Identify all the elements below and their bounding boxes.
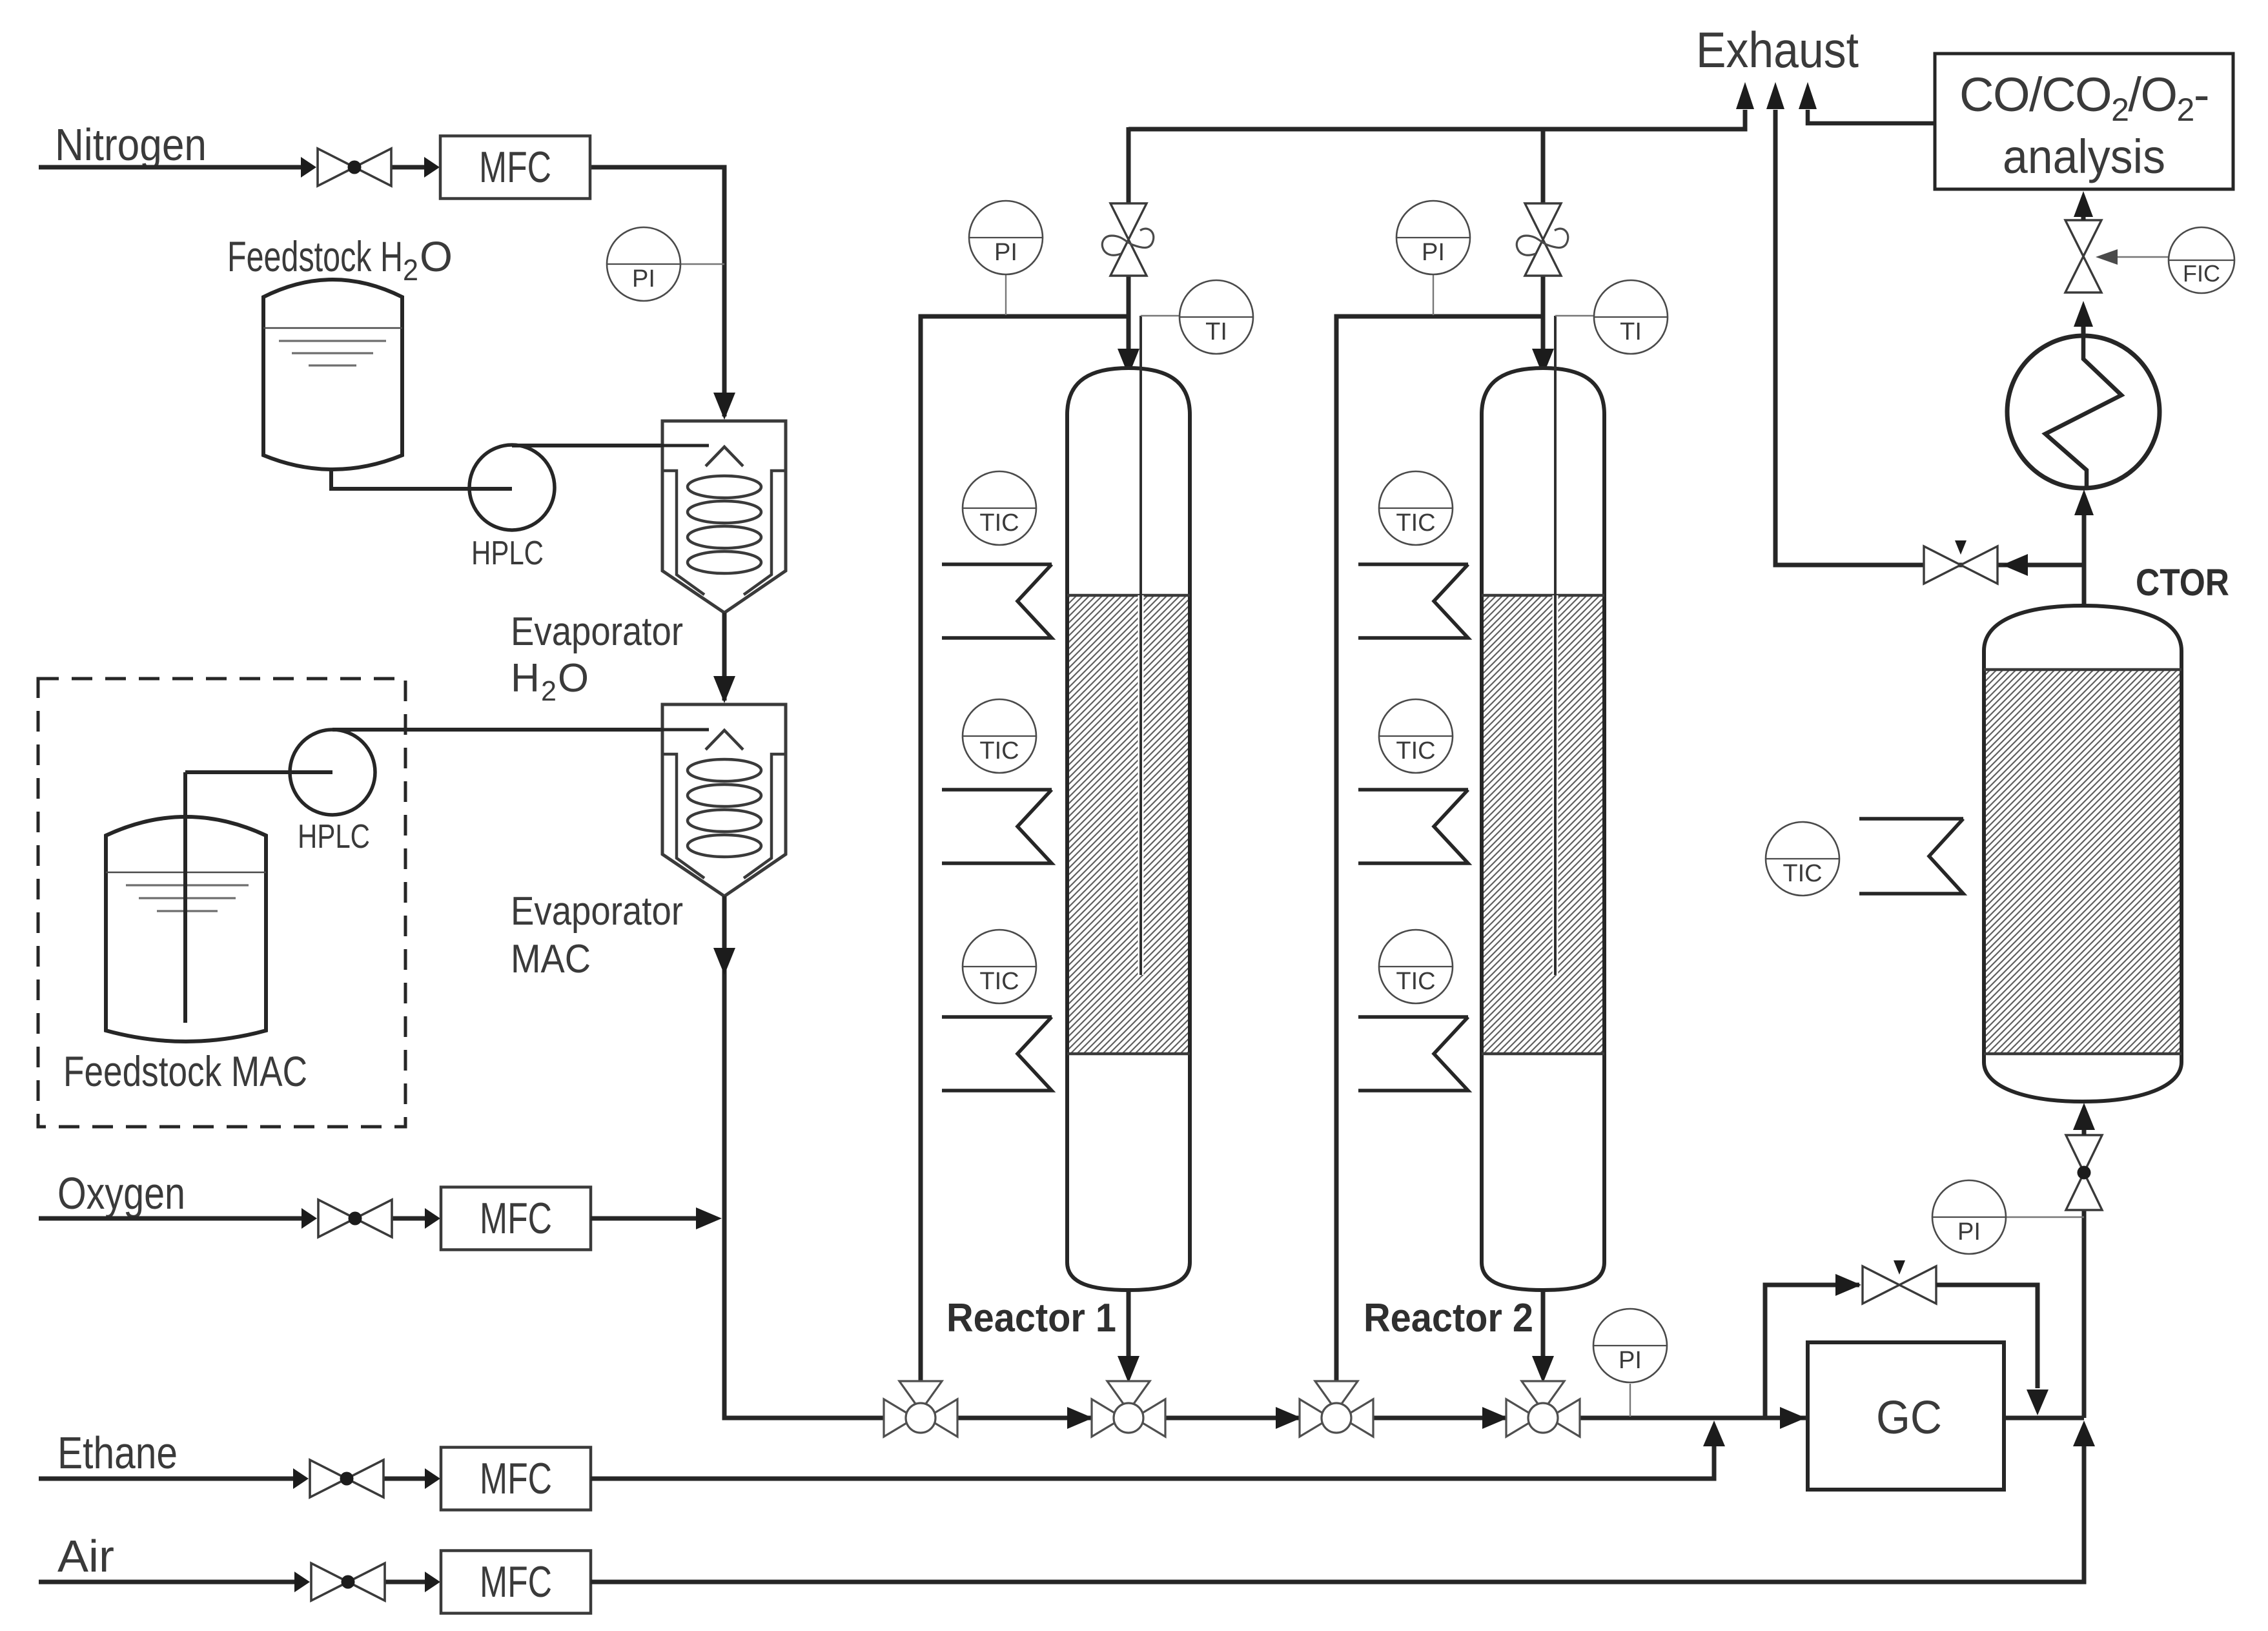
wire reactor 1 TI tap bbox=[1141, 315, 1180, 316]
svg-text:CO/CO2/O2-: CO/CO2/O2- bbox=[1959, 68, 2209, 128]
arrow reactor 2 outlet down bbox=[1532, 1356, 1554, 1383]
arrow reactor 1 outlet down bbox=[1118, 1356, 1139, 1383]
valve air shutoff bbox=[311, 1563, 385, 1601]
heater reactor 1 zone 2 bbox=[942, 790, 1052, 863]
svg-text:TI: TI bbox=[1205, 318, 1227, 345]
arrow analysis exhaust up bbox=[1799, 82, 1817, 109]
wire valve to CTOR bottom bbox=[2082, 1123, 2087, 1135]
svg-text:MFC: MFC bbox=[479, 143, 551, 192]
svg-text:TIC: TIC bbox=[1396, 737, 1435, 764]
valve three-way C bbox=[1300, 1381, 1373, 1437]
vessel reactor 2 shell bbox=[1482, 368, 1604, 1290]
instrument TIC reactor 1 zone 2 bbox=[963, 699, 1036, 773]
node feedstock MAC dashed enclosure bbox=[38, 679, 405, 1127]
instrument FIC tap bbox=[2106, 256, 2169, 258]
wire reactor 2 inlet drop through valve bbox=[1541, 275, 1546, 352]
instrument TI reactor 2 bbox=[1594, 280, 1668, 354]
svg-text:Reactor 1: Reactor 1 bbox=[946, 1296, 1116, 1340]
wire ethane valve-to-MFC bbox=[383, 1477, 429, 1481]
svg-text:HPLC: HPLC bbox=[298, 818, 370, 856]
instrument TI reactor 1 bbox=[1180, 280, 1253, 354]
valve reactor 1 vent needle valve bbox=[1110, 203, 1147, 276]
svg-text:Oxygen: Oxygen bbox=[57, 1168, 185, 1218]
valve three-way A bbox=[884, 1381, 957, 1437]
wire riser to CTOR bbox=[2082, 1209, 2087, 1418]
svg-text:PI: PI bbox=[1957, 1218, 1981, 1246]
wire reactor 1 inlet drop through valve bbox=[1127, 275, 1131, 352]
instrument FIC bbox=[2169, 227, 2234, 293]
wire reactor 2 PI tap bbox=[1433, 274, 1434, 315]
wire CTOR top to heat exchanger bbox=[2082, 513, 2087, 606]
arrow into reactor 2 top bbox=[1532, 349, 1554, 376]
heater reactor 2 zone 1 bbox=[1358, 564, 1468, 638]
wire air MFC to CTOR riser bbox=[591, 1441, 2084, 1582]
instrument PI CTOR feed tap bbox=[2006, 1216, 2084, 1218]
arrow bypass into valve bbox=[1835, 1274, 1861, 1296]
arrow into air valve bbox=[294, 1572, 310, 1592]
wire HPLC1 discharge inside evaporator bbox=[661, 444, 709, 447]
MFC air bbox=[441, 1551, 591, 1614]
instrument PI nitrogen bbox=[607, 227, 680, 301]
arrow into CTOR vent valve bbox=[2002, 554, 2028, 576]
wire air valve-to-MFC bbox=[385, 1580, 429, 1585]
arrow manifold into valve B bbox=[1067, 1407, 1093, 1429]
svg-text:Ethane: Ethane bbox=[57, 1428, 178, 1478]
wire bypass return bbox=[1936, 1285, 2038, 1388]
svg-text:MFC: MFC bbox=[480, 1194, 552, 1243]
valve nitrogen shutoff bbox=[318, 149, 391, 186]
wire oxygen valve-to-MFC bbox=[392, 1216, 429, 1221]
wire GC bypass riser bbox=[1765, 1285, 1859, 1418]
wire tank line into pump center bbox=[469, 487, 512, 491]
heater reactor 2 zone 3 bbox=[1358, 1017, 1468, 1091]
wire tank outlet to HPLC pump bbox=[331, 467, 510, 489]
svg-text:analysis: analysis bbox=[2003, 130, 2165, 183]
heater reactor 1 zone 1 bbox=[942, 564, 1052, 638]
MFC nitrogen bbox=[440, 136, 590, 199]
wire heat exchanger to FIC valve bbox=[2081, 326, 2086, 336]
svg-text:Exhaust: Exhaust bbox=[1696, 21, 1859, 78]
wire analysis box to exhaust bbox=[1808, 110, 1935, 123]
wire reactor 2 thermowell bbox=[1553, 595, 1558, 975]
valve CTOR vent bbox=[1924, 546, 1997, 584]
wire GC outlet bbox=[2004, 1416, 2084, 1421]
wire reactor 1 furnace feed riser bbox=[921, 316, 1129, 1383]
wire reactor 2 outlet to selector valve bbox=[1541, 1289, 1546, 1362]
heater reactor 2 zone 2 bbox=[1358, 790, 1468, 863]
heater CTOR bbox=[1859, 819, 1963, 894]
arrow into heat exchanger bbox=[2074, 489, 2094, 515]
svg-text:FIC: FIC bbox=[2183, 260, 2220, 287]
valve three-way D bbox=[1506, 1381, 1580, 1437]
svg-text:2: 2 bbox=[403, 253, 418, 287]
wire reactor 1 outlet to selector valve bbox=[1127, 1289, 1131, 1362]
wire manifold D to GC bbox=[1578, 1416, 1806, 1421]
valve CTOR feed shutoff bbox=[2066, 1135, 2102, 1210]
wire reactor 2 TI tap bbox=[1555, 315, 1594, 316]
arrow into oxygen valve bbox=[301, 1208, 317, 1229]
wire manifold A-B bbox=[955, 1416, 1094, 1421]
svg-text:TIC: TIC bbox=[1396, 509, 1435, 537]
vessel reactor 1 shell bbox=[1067, 368, 1190, 1290]
pump HPLC 1 bbox=[469, 445, 555, 530]
wire oxygen inlet line bbox=[39, 1216, 307, 1221]
arrow into oxygen MFC bbox=[425, 1208, 440, 1229]
wire nitrogen downcomer bbox=[722, 165, 727, 417]
arrow FIC signal into valve bbox=[2096, 249, 2118, 265]
svg-text:GC: GC bbox=[1876, 1392, 1942, 1444]
vessel evaporator H2O bbox=[662, 421, 786, 613]
arrow air riser joins GC outlet bbox=[2073, 1421, 2095, 1446]
wire FIC valve to analysis box bbox=[2081, 213, 2086, 220]
instrument PI reactor 1 bbox=[969, 201, 1043, 274]
pump HPLC 2 bbox=[290, 730, 375, 815]
wire reactor 1 thermowell bbox=[1138, 595, 1144, 975]
wire evaporator H2O to evaporator MAC bbox=[722, 613, 727, 701]
arrow into evaporator MAC bbox=[713, 676, 735, 703]
wire manifold B-C bbox=[1163, 1416, 1303, 1421]
vessel feedstock MAC tank bbox=[106, 817, 266, 1041]
svg-text:MFC: MFC bbox=[480, 1557, 552, 1606]
svg-text:TI: TI bbox=[1620, 318, 1642, 345]
MFC oxygen bbox=[441, 1187, 591, 1250]
arrow into evaporator H2O bbox=[713, 393, 735, 420]
node reactor 1 catalyst bed bbox=[1069, 595, 1188, 1054]
svg-text:PI: PI bbox=[1619, 1347, 1642, 1374]
arrow into reactor 1 top bbox=[1118, 349, 1139, 376]
wire reactor 2 vent line to exhaust header bbox=[1541, 127, 1546, 204]
svg-text:PI: PI bbox=[632, 265, 655, 292]
heater reactor 1 zone 3 bbox=[942, 1017, 1052, 1091]
wire evaporator MAC down to feed manifold corner bbox=[724, 896, 886, 1418]
heat-exchanger cooler bbox=[2007, 336, 2160, 488]
arrow into nitrogen valve bbox=[301, 157, 316, 178]
arrow into air MFC bbox=[425, 1572, 440, 1592]
svg-text:MFC: MFC bbox=[480, 1454, 552, 1503]
arrow into ethane valve bbox=[293, 1468, 309, 1489]
instrument PI manifold tap bbox=[1629, 1384, 1631, 1417]
wire ethane inlet line bbox=[39, 1477, 298, 1481]
instrument TIC reactor 2 zone 2 bbox=[1379, 699, 1453, 773]
MFC ethane bbox=[441, 1448, 591, 1510]
valve GC bypass bbox=[1863, 1266, 1936, 1304]
wire exhaust header bbox=[1129, 110, 1745, 129]
svg-text:O: O bbox=[420, 232, 453, 280]
wire reactor 2 furnace feed riser bbox=[1336, 316, 1543, 1383]
valve oxygen shutoff bbox=[318, 1200, 392, 1237]
arrow into ethane MFC bbox=[425, 1468, 440, 1489]
instrument TIC reactor 2 zone 3 bbox=[1379, 930, 1453, 1003]
svg-text:Feedstock H: Feedstock H bbox=[227, 232, 403, 280]
wire HPLC2 discharge inside evaporator bbox=[661, 728, 709, 732]
wire HPLC1 discharge to evaporator H2O (outside) bbox=[512, 444, 661, 447]
svg-text:CTOR: CTOR bbox=[2136, 562, 2229, 604]
arrow feed line downward bbox=[713, 948, 735, 975]
valve reactor 2 vent needle valve bbox=[1525, 203, 1561, 276]
arrow ethane joins analysis line bbox=[1703, 1421, 1725, 1446]
arrow into GC bbox=[1780, 1407, 1806, 1429]
svg-text:HPLC: HPLC bbox=[471, 535, 544, 572]
vessel evaporator MAC bbox=[662, 704, 786, 896]
svg-text:Evaporator: Evaporator bbox=[511, 889, 683, 934]
wire ethane MFC to GC feed join bbox=[591, 1441, 1714, 1479]
valve three-way B bbox=[1092, 1381, 1165, 1437]
svg-text:TIC: TIC bbox=[1783, 860, 1822, 887]
svg-text:O: O bbox=[558, 656, 589, 701]
arrow CTOR vent up to exhaust bbox=[1766, 82, 1784, 109]
vessel CTOR bbox=[1984, 606, 2181, 1102]
svg-text:PI: PI bbox=[994, 239, 1017, 266]
arrow manifold into valve C bbox=[1276, 1407, 1302, 1429]
svg-text:TIC: TIC bbox=[979, 968, 1019, 995]
arrow bypass rejoin down bbox=[2027, 1390, 2048, 1415]
wire CTOR vent line bbox=[1775, 110, 2084, 565]
wire valve-to-MFC line bbox=[391, 165, 429, 170]
arrow into FIC valve bbox=[2074, 301, 2093, 327]
svg-text:H: H bbox=[511, 656, 540, 701]
node CTOR catalyst bed bbox=[1986, 670, 2180, 1054]
instrument PI reactor 2 bbox=[1396, 201, 1470, 274]
vessel feedstock H2O tank bbox=[263, 280, 402, 469]
valve ethane shutoff bbox=[310, 1460, 383, 1497]
arrow into nitrogen MFC bbox=[424, 157, 440, 178]
svg-text:PI: PI bbox=[1422, 239, 1445, 266]
wire oxygen MFC to feed downcomer bbox=[591, 1216, 696, 1221]
svg-text:TIC: TIC bbox=[979, 737, 1019, 764]
instrument PI nitrogen line tap bbox=[680, 263, 724, 265]
instrument TIC CTOR bbox=[1766, 822, 1839, 896]
wire dip tube to HPLC 2 bbox=[185, 770, 332, 774]
node reactor 2 catalyst bed bbox=[1484, 595, 1602, 1054]
instrument TIC reactor 1 zone 3 bbox=[963, 930, 1036, 1003]
arrow exhaust header up bbox=[1736, 82, 1754, 109]
box CO/CO2/O2 analysis bbox=[1935, 54, 2233, 189]
wire manifold C-D bbox=[1371, 1416, 1509, 1421]
svg-text:Nitrogen: Nitrogen bbox=[55, 119, 207, 170]
wire HPLC2 discharge to evaporator MAC bbox=[332, 728, 661, 732]
box GC bbox=[1808, 1342, 2004, 1490]
svg-text:Air: Air bbox=[57, 1531, 114, 1581]
arrow into CTOR bottom bbox=[2073, 1103, 2095, 1130]
svg-text:Feedstock MAC: Feedstock MAC bbox=[63, 1047, 307, 1095]
arrow manifold into valve D bbox=[1482, 1407, 1508, 1429]
instrument TIC reactor 2 zone 1 bbox=[1379, 471, 1453, 545]
wire nitrogen inlet line bbox=[39, 165, 306, 170]
arrow oxygen joins feed line bbox=[696, 1207, 722, 1229]
instrument TIC reactor 1 zone 1 bbox=[963, 471, 1036, 545]
svg-text:2: 2 bbox=[541, 675, 557, 707]
svg-text:Evaporator: Evaporator bbox=[511, 610, 683, 654]
wire reactor 1 PI tap bbox=[1005, 274, 1006, 315]
valve FIC control bbox=[2065, 220, 2101, 292]
wire MAC dip tube bbox=[183, 772, 187, 1023]
arrow into analysis box bbox=[2074, 191, 2093, 217]
svg-text:TIC: TIC bbox=[1396, 968, 1435, 995]
wire reactor 1 vent line to exhaust header bbox=[1127, 127, 1131, 204]
svg-text:Reactor 2: Reactor 2 bbox=[1364, 1296, 1533, 1340]
wire air inlet line bbox=[39, 1580, 300, 1585]
svg-text:TIC: TIC bbox=[979, 509, 1019, 537]
svg-text:MAC: MAC bbox=[511, 937, 591, 981]
wire MFC to downcomer bbox=[589, 165, 727, 170]
